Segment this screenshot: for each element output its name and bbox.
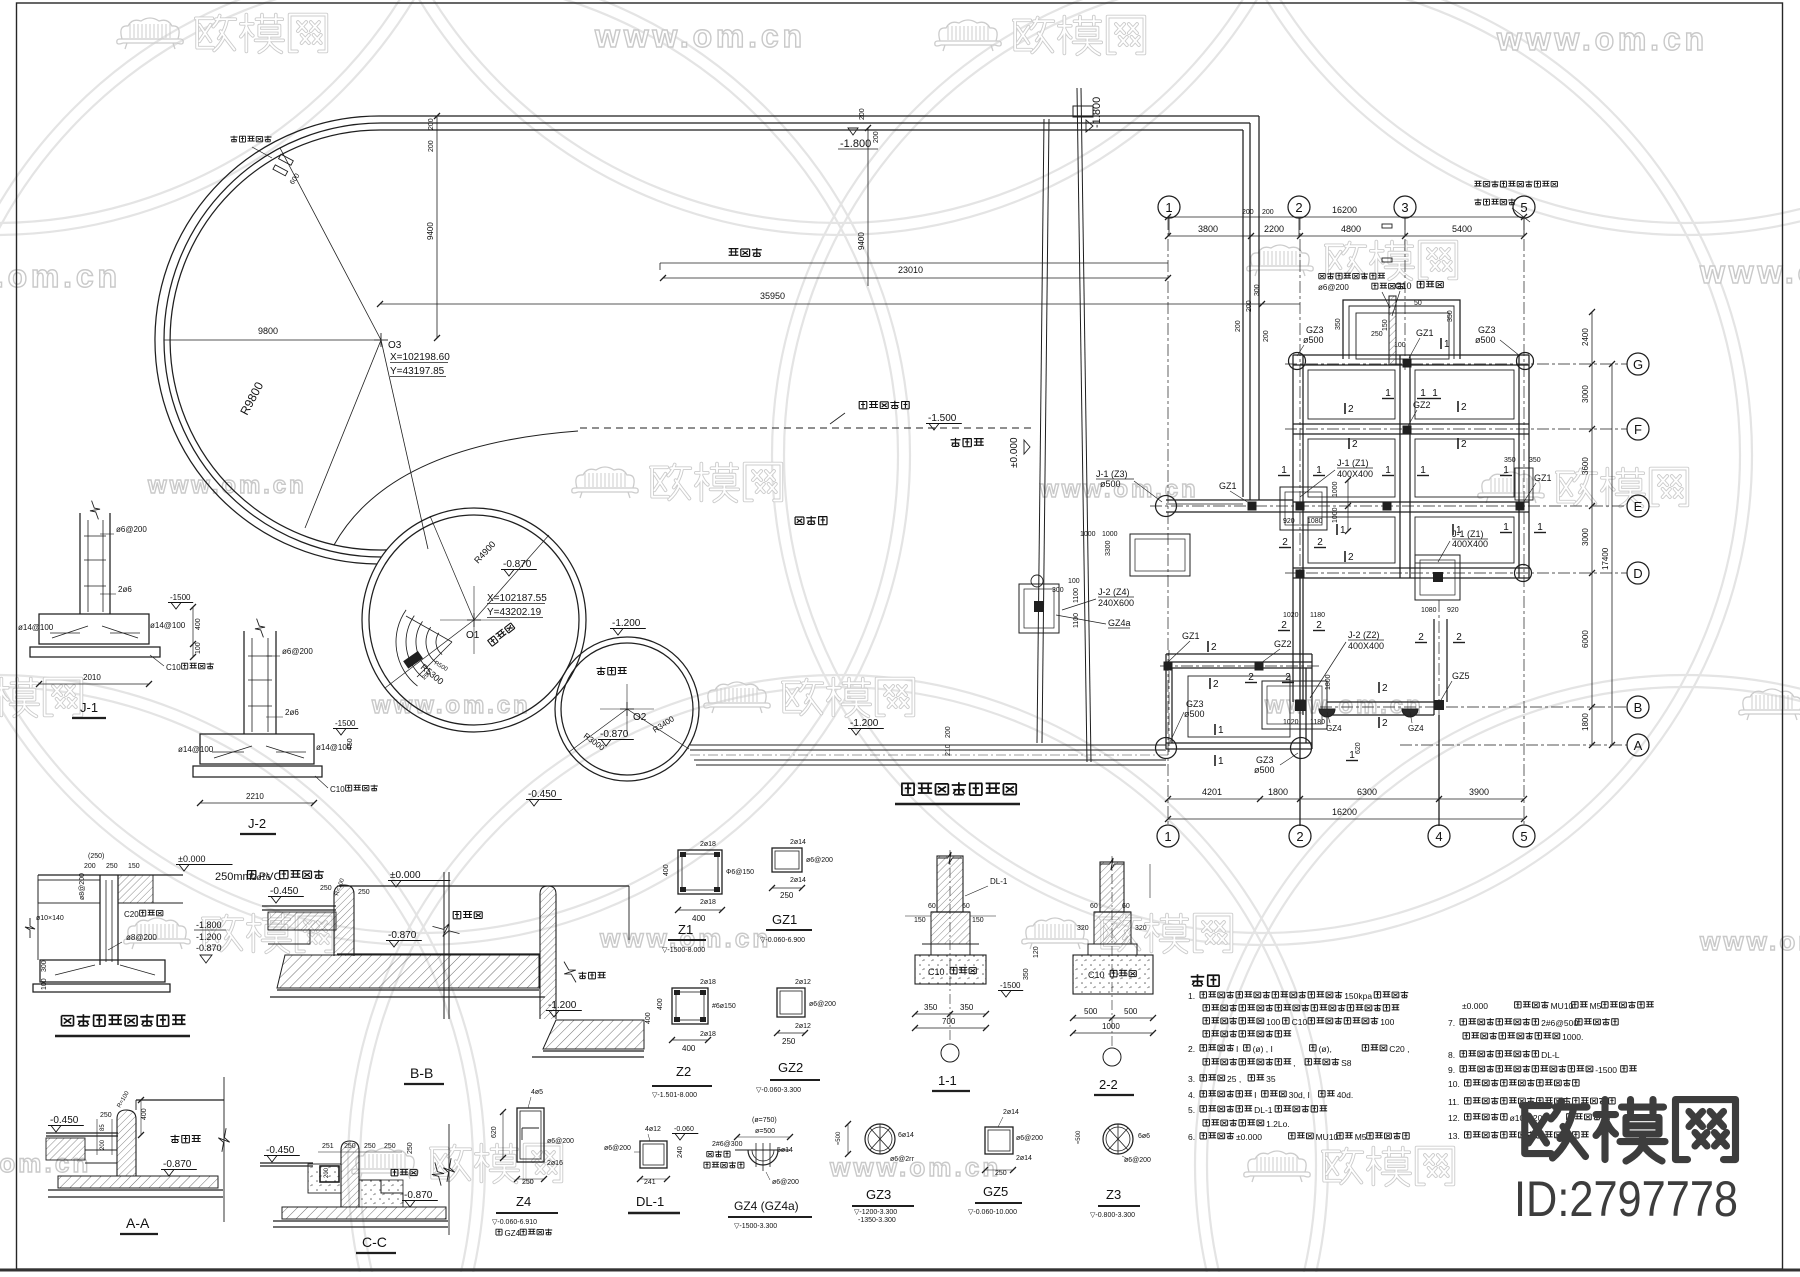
svg-text:Y=43197.85: Y=43197.85 [390, 366, 445, 377]
svg-text:-1.800: -1.800 [840, 138, 871, 150]
svg-text:350: 350 [1023, 968, 1030, 980]
svg-text:920: 920 [1447, 607, 1459, 614]
svg-text:12.: 12. [1448, 1113, 1460, 1123]
svg-text:Y=43202.19: Y=43202.19 [487, 607, 542, 618]
detail J-1: wall column [79, 513, 81, 614]
svg-text:A: A [1634, 738, 1643, 753]
reinforcement footing [40, 960, 165, 982]
svg-text:GZ1: GZ1 [1534, 473, 1552, 483]
water slide support line (diagonal) [1077, 88, 1087, 762]
svg-text:1800: 1800 [1268, 787, 1288, 797]
svg-text:250: 250 [782, 1037, 796, 1046]
detail 2-2 footing [1100, 862, 1124, 912]
svg-text:2: 2 [1317, 537, 1323, 548]
ladder label top-left [230, 136, 237, 143]
svg-text:2ø14: 2ø14 [790, 877, 806, 884]
svg-text:www.om.cn: www.om.cn [1699, 254, 1800, 290]
svg-text:▽-0.060-6.910: ▽-0.060-6.910 [492, 1219, 537, 1226]
svg-text:C10: C10 [330, 785, 345, 794]
svg-text:1: 1 [1281, 465, 1287, 476]
svg-text:2ø18: 2ø18 [700, 1031, 716, 1038]
svg-text:GZ3: GZ3 [1478, 325, 1496, 335]
svg-text:1: 1 [1537, 522, 1543, 533]
svg-text:35950: 35950 [760, 291, 785, 301]
svg-text:50: 50 [1414, 300, 1422, 307]
svg-text:www.om.cn: www.om.cn [829, 1152, 1001, 1182]
svg-text:ø6@200: ø6@200 [772, 1179, 799, 1186]
svg-text:GZ1: GZ1 [1219, 481, 1237, 491]
axis 1 vertical dash-dot [1167, 218, 1169, 826]
svg-text:400: 400 [657, 998, 664, 1010]
GZ4 half-round shape [748, 1150, 778, 1165]
svg-text:-0.870: -0.870 [388, 930, 417, 941]
svg-text:GZ3: GZ3 [866, 1187, 891, 1202]
svg-text:1-1: 1-1 [938, 1073, 957, 1088]
svg-text:6ø14: 6ø14 [898, 1132, 914, 1139]
svg-text:200: 200 [428, 118, 435, 130]
axis 2 vertical dash-dot [1299, 218, 1301, 826]
svg-text:3600: 3600 [1581, 457, 1590, 475]
J-2(Z2) footing [1262, 681, 1327, 729]
svg-text:J-1 (Z3): J-1 (Z3) [1096, 469, 1128, 479]
svg-text:3000: 3000 [1581, 528, 1590, 546]
ladder rungs [273, 154, 293, 176]
svg-text:S8: S8 [1341, 1058, 1352, 1068]
svg-text:1: 1 [1420, 388, 1426, 399]
svg-text:2: 2 [1211, 642, 1217, 653]
svg-text:5.: 5. [1188, 1105, 1195, 1115]
axis G horizontal dash-dot [1285, 363, 1627, 365]
O1 radius lines [474, 535, 549, 620]
svg-text:17400: 17400 [1601, 547, 1610, 570]
A-A top line [136, 1099, 224, 1101]
svg-text:1: 1 [1503, 522, 1509, 533]
svg-text:ø6@200: ø6@200 [1124, 1157, 1151, 1164]
svg-text:B: B [1634, 700, 1643, 715]
detail Z4 column [517, 1108, 544, 1162]
detail GZ3 column circle [865, 1124, 895, 1154]
svg-text:J-2 (Z2): J-2 (Z2) [1348, 630, 1380, 640]
C-C break [448, 1124, 450, 1235]
axis 5 vertical dash-dot [1523, 218, 1525, 826]
svg-text:G: G [1633, 357, 1643, 372]
svg-text:1: 1 [1218, 756, 1224, 767]
svg-text:1000: 1000 [1102, 531, 1118, 538]
svg-text:350: 350 [924, 1003, 938, 1012]
svg-text:1000: 1000 [1332, 507, 1339, 523]
svg-text:200: 200 [100, 1139, 106, 1150]
svg-text:C10: C10 [928, 967, 945, 977]
svg-text:4ø5: 4ø5 [531, 1089, 543, 1096]
svg-text:ø10×140: ø10×140 [36, 915, 64, 922]
svg-text:GZ5: GZ5 [1452, 671, 1470, 681]
svg-text:250: 250 [1371, 331, 1383, 338]
pool wall E-arm horizontals [1166, 499, 1293, 501]
top dimension row [1168, 235, 1524, 237]
svg-text:www.om.cn: www.om.cn [147, 472, 307, 499]
svg-text:±0.000: ±0.000 [1462, 1001, 1488, 1011]
svg-text:DL-L: DL-L [1541, 1050, 1560, 1060]
svg-text:16200: 16200 [1332, 807, 1357, 817]
svg-text:ø6@200: ø6@200 [604, 1145, 631, 1152]
svg-text:1100: 1100 [1073, 588, 1080, 603]
svg-text:2-2: 2-2 [1099, 1077, 1118, 1092]
note line left y1012 [1203, 1005, 1210, 1011]
right vertical dim lines [1591, 312, 1593, 745]
dim line 23010 [663, 277, 1168, 279]
svg-text:250: 250 [995, 1170, 1007, 1177]
svg-text:6.: 6. [1188, 1132, 1195, 1142]
svg-text:300: 300 [1254, 284, 1261, 296]
svg-text:150: 150 [128, 863, 140, 870]
svg-text:400: 400 [682, 1044, 696, 1053]
svg-text:350: 350 [1335, 318, 1342, 330]
svg-text:25 ,: 25 , [1227, 1074, 1241, 1084]
svg-text:ø6@200: ø6@200 [1016, 1135, 1043, 1142]
svg-text:ID:2797778: ID:2797778 [1514, 1171, 1738, 1227]
svg-text:O1: O1 [466, 630, 480, 641]
notes heading [1191, 974, 1205, 986]
svg-text:-1.500: -1.500 [928, 413, 957, 424]
svg-text:±0.000: ±0.000 [390, 870, 421, 881]
svg-text:1: 1 [1432, 388, 1438, 399]
svg-text:ø6@200: ø6@200 [282, 647, 313, 656]
svg-text:2210: 2210 [246, 792, 264, 801]
J-1(Z1) footing at 2xE [1280, 487, 1327, 530]
svg-text:9400: 9400 [857, 232, 866, 250]
dim line 35950 [380, 303, 1300, 305]
pump room inner tank [1188, 676, 1290, 737]
svg-text:4.: 4. [1188, 1090, 1195, 1100]
svg-text:C10: C10 [166, 663, 181, 672]
svg-text:Z3: Z3 [1106, 1187, 1121, 1202]
svg-text:1: 1 [1165, 200, 1172, 215]
detail 1-1 footing [937, 856, 963, 912]
svg-text:GZ5: GZ5 [983, 1184, 1008, 1199]
svg-text:Ф6@150: Ф6@150 [726, 869, 754, 876]
svg-text:500: 500 [1124, 1007, 1138, 1016]
svg-text:ø6@200: ø6@200 [809, 1001, 836, 1008]
note line left y1066 [1203, 1059, 1210, 1065]
svg-text:(ø),: (ø), [1319, 1044, 1332, 1054]
note line right y1040 [1463, 1033, 1470, 1039]
wall ladder rungs right [1382, 224, 1392, 228]
shore boundary curve [334, 431, 578, 545]
svg-text:60: 60 [1090, 903, 1098, 910]
svg-text:▽-1.501-8.000: ▽-1.501-8.000 [652, 1092, 697, 1099]
svg-text:www.om.cn: www.om.cn [1496, 21, 1708, 57]
svg-text:11.: 11. [1448, 1097, 1459, 1107]
svg-text:-1350-3.300: -1350-3.300 [858, 1217, 896, 1224]
svg-text:350: 350 [960, 1003, 974, 1012]
svg-text:-0.870: -0.870 [503, 559, 532, 570]
pump room walls [1166, 653, 1312, 655]
level -1.800 top [848, 128, 858, 135]
svg-text:200: 200 [859, 108, 866, 120]
svg-text:7.: 7. [1448, 1018, 1455, 1028]
svg-text:150: 150 [972, 917, 984, 924]
svg-text:250: 250 [780, 891, 794, 900]
massage pool circle O2 (double wall) [555, 637, 699, 781]
svg-text:ø14@100: ø14@100 [178, 745, 214, 754]
svg-text:ø6@200: ø6@200 [547, 1138, 574, 1145]
svg-text:400: 400 [645, 1012, 652, 1024]
svg-text:1: 1 [1385, 388, 1391, 399]
svg-text:D: D [1633, 566, 1642, 581]
svg-text:60: 60 [962, 903, 970, 910]
GZ4 semicircle 2 [1402, 709, 1418, 717]
svg-text:www.om.cn: www.om.cn [1699, 926, 1800, 956]
svg-text:Z1: Z1 [678, 922, 693, 937]
svg-text:2: 2 [1456, 632, 1462, 643]
svg-text:2: 2 [1348, 552, 1354, 563]
svg-text:2: 2 [1352, 439, 1358, 450]
svg-text:1180: 1180 [1310, 612, 1325, 619]
svg-text:2.: 2. [1188, 1044, 1195, 1054]
svg-text:3900: 3900 [1469, 787, 1489, 797]
svg-text:-1.200: -1.200 [196, 932, 222, 942]
svg-text:150: 150 [914, 917, 926, 924]
svg-text:300: 300 [1052, 587, 1064, 594]
svg-text:C-C: C-C [362, 1234, 387, 1250]
svg-text:400X400: 400X400 [1452, 539, 1488, 549]
svg-text:2: 2 [1282, 537, 1288, 548]
svg-text:250: 250 [364, 1143, 376, 1150]
svg-text:2ø18: 2ø18 [700, 899, 716, 906]
big corner circles (GZ3 o500) [1289, 353, 1306, 370]
svg-text:200: 200 [1235, 320, 1242, 332]
J-2(Z4) footing on pool wall [1019, 584, 1059, 633]
svg-text:16200: 16200 [1332, 205, 1357, 215]
svg-text:250: 250 [106, 863, 118, 870]
svg-text:ø14@100: ø14@100 [150, 621, 186, 630]
svg-text:2: 2 [1281, 620, 1287, 631]
svg-text:100: 100 [1266, 1017, 1280, 1027]
interior dividing wall (vertical) [1037, 119, 1044, 743]
axis E horizontal dash-dot [1150, 505, 1627, 507]
svg-text:9400: 9400 [426, 222, 435, 240]
svg-text:-0.450: -0.450 [266, 1145, 295, 1156]
svg-text:GZ3: GZ3 [1306, 325, 1324, 335]
label GZ5 + column [1434, 700, 1444, 710]
svg-text:2: 2 [1461, 402, 1467, 413]
pool radius lines from O3 [280, 148, 381, 340]
svg-text:200: 200 [84, 863, 96, 870]
svg-text:620: 620 [1355, 742, 1362, 754]
C-C curb [341, 1141, 359, 1207]
channel from massage pool to pump room [690, 744, 1166, 746]
svg-text:Z4: Z4 [516, 1194, 531, 1209]
svg-text:1800: 1800 [1581, 713, 1590, 731]
pool right edge wall lines [1258, 116, 1260, 500]
svg-text:320: 320 [1077, 925, 1089, 932]
svg-text:240X600: 240X600 [1098, 598, 1134, 608]
plan title (foundation layout) [901, 783, 914, 795]
axis F horizontal dash-dot [1285, 428, 1627, 430]
svg-text:2: 2 [1248, 672, 1254, 683]
svg-text:(250): (250) [88, 853, 104, 860]
svg-text:60: 60 [928, 903, 936, 910]
label rebar mesh note [1319, 273, 1325, 278]
ladder note right (factory) [1474, 181, 1481, 186]
watermark big logo OMW [1523, 1100, 1736, 1162]
label play pool (rotated) [487, 623, 515, 647]
svg-text:MU10: MU10 [1551, 1001, 1574, 1011]
pool main circular wall R9800 (triple arc) [155, 116, 381, 564]
svg-text:5400: 5400 [1452, 224, 1472, 234]
svg-text:200: 200 [1263, 330, 1270, 342]
svg-text:GZ4: GZ4 [1408, 724, 1424, 733]
svg-text:J-1: J-1 [80, 700, 98, 715]
svg-text:2: 2 [1296, 829, 1303, 844]
svg-text:1: 1 [1340, 525, 1346, 536]
svg-text:100: 100 [1380, 1017, 1394, 1027]
svg-text:▽-0.060-10.000: ▽-0.060-10.000 [968, 1209, 1017, 1216]
B-B right pool label [578, 972, 586, 979]
svg-text:240: 240 [677, 1146, 684, 1158]
J-2 footing [200, 734, 314, 764]
svg-text:(ø) , I: (ø) , I [1253, 1044, 1273, 1054]
svg-text:1180: 1180 [1310, 719, 1325, 726]
svg-text:ø6@200: ø6@200 [1318, 283, 1349, 292]
svg-text:1800: 1800 [1325, 674, 1332, 690]
svg-text:X=102198.60: X=102198.60 [390, 352, 450, 363]
svg-text:www.om.cn: www.om.cn [371, 692, 531, 719]
axis 3 vertical dash-dot [1404, 218, 1406, 370]
red warning dashed line [580, 427, 1035, 429]
svg-text:B-B: B-B [410, 1065, 433, 1081]
svg-text:9800: 9800 [258, 326, 278, 336]
svg-text:2400: 2400 [1581, 328, 1590, 346]
svg-text:1: 1 [1420, 465, 1426, 476]
svg-text:350: 350 [1447, 310, 1454, 322]
svg-text:≈500: ≈500 [1076, 1130, 1082, 1144]
svg-text:I: I [1236, 1044, 1238, 1054]
C-C pool label [391, 1169, 398, 1176]
svg-text:1020: 1020 [1283, 719, 1299, 726]
J-1 footing [39, 614, 149, 644]
svg-text:ø500: ø500 [1303, 335, 1324, 345]
svg-text:,: , [1293, 1058, 1295, 1068]
svg-text:C10: C10 [1088, 970, 1105, 980]
svg-text:F: F [1634, 422, 1642, 437]
svg-text:2: 2 [1213, 679, 1219, 690]
svg-text:±0.000: ±0.000 [1236, 1132, 1262, 1142]
svg-text:4: 4 [1435, 829, 1442, 844]
svg-text:ø6@2гг: ø6@2гг [890, 1156, 915, 1163]
svg-text:ø500: ø500 [1100, 479, 1121, 489]
section marks |1 |2 in rooms [1440, 338, 1442, 349]
svg-text:100: 100 [41, 978, 48, 990]
svg-text:200: 200 [1246, 300, 1253, 312]
svg-text:Z2: Z2 [676, 1064, 691, 1079]
svg-text:251: 251 [322, 1143, 334, 1150]
B-B floor [337, 953, 540, 955]
C-C left concrete block [308, 1164, 341, 1193]
svg-text:I: I [1254, 1090, 1256, 1100]
svg-text:250mm: 250mm [215, 871, 252, 883]
B-B left curb wall [334, 885, 354, 956]
svg-text:250: 250 [522, 1179, 534, 1186]
svg-text:-1.800: -1.800 [196, 920, 222, 930]
svg-text:2ø18: 2ø18 [700, 841, 716, 848]
svg-text:6ø6: 6ø6 [1138, 1133, 1150, 1140]
svg-text:9.: 9. [1448, 1065, 1455, 1075]
svg-text:13.: 13. [1448, 1131, 1460, 1141]
B-B centre break pipe [443, 872, 445, 1019]
detail Z2 column [672, 988, 708, 1024]
A-A pool label [171, 1135, 180, 1143]
svg-text:▽-0.060-6.900: ▽-0.060-6.900 [760, 937, 805, 944]
detail J-2: wall column [243, 631, 245, 734]
svg-text:J-2 (Z4): J-2 (Z4) [1098, 587, 1130, 597]
svg-text:ø8@200: ø8@200 [79, 873, 86, 900]
svg-text:GZ2: GZ2 [1413, 400, 1431, 410]
svg-text:2: 2 [1382, 718, 1388, 729]
axis bubbles top [1158, 196, 1180, 218]
svg-text:2: 2 [1348, 404, 1354, 415]
svg-text:#6ø150: #6ø150 [712, 1003, 736, 1010]
svg-text:-0.450: -0.450 [270, 886, 299, 897]
reinforcement title [62, 1016, 74, 1026]
svg-text:2#6@500: 2#6@500 [1541, 1018, 1578, 1028]
svg-text:120: 120 [1033, 946, 1040, 958]
svg-text:1.: 1. [1188, 991, 1195, 1001]
svg-text:250: 250 [407, 1142, 414, 1154]
svg-text:2ø16: 2ø16 [547, 1160, 563, 1167]
svg-text:400: 400 [692, 914, 706, 923]
svg-text:≈500: ≈500 [836, 1131, 842, 1145]
svg-text:2: 2 [1316, 620, 1322, 631]
svg-text:www.om.cn: www.om.cn [0, 258, 121, 294]
svg-text:400: 400 [195, 618, 202, 630]
svg-text:-1500: -1500 [1000, 981, 1021, 990]
svg-text:320: 320 [1135, 925, 1147, 932]
svg-text:-0.450: -0.450 [50, 1115, 79, 1126]
svg-text:200: 200 [428, 140, 435, 152]
axis 4 vertical dash-dot [1438, 600, 1440, 826]
A-A break line [223, 1077, 225, 1222]
svg-text:ø500: ø500 [1254, 765, 1275, 775]
axis A horizontal dash-dot [1400, 744, 1627, 746]
svg-text:GZ3: GZ3 [1186, 699, 1204, 709]
svg-text:4800: 4800 [1341, 224, 1361, 234]
svg-text:85: 85 [100, 1124, 106, 1131]
svg-text:ø8@200: ø8@200 [126, 933, 157, 942]
svg-text:2ø12: 2ø12 [795, 1023, 811, 1030]
note line left y1025 [1203, 1018, 1210, 1024]
svg-text:▽-1500-8.000: ▽-1500-8.000 [662, 947, 705, 954]
svg-text:10.: 10. [1448, 1079, 1460, 1089]
svg-text:-0.450: -0.450 [528, 789, 557, 800]
svg-text:8.: 8. [1448, 1050, 1455, 1060]
svg-text:ø500: ø500 [1184, 709, 1205, 719]
svg-text:1: 1 [1218, 725, 1224, 736]
svg-text:ø14@100: ø14@100 [18, 623, 54, 632]
svg-text:3300: 3300 [1105, 540, 1112, 556]
svg-text:ø6@200: ø6@200 [116, 525, 147, 534]
svg-text:1000: 1000 [1332, 481, 1339, 497]
svg-text:2ø14: 2ø14 [1003, 1109, 1019, 1116]
svg-text:100: 100 [1394, 342, 1406, 349]
svg-text:2#6@300: 2#6@300 [712, 1141, 743, 1148]
svg-text:-1.200: -1.200 [612, 618, 641, 629]
svg-text:O3: O3 [388, 340, 402, 351]
svg-text:J-2: J-2 [248, 816, 266, 831]
label shallow water zone [951, 438, 961, 447]
svg-text:1: 1 [1456, 525, 1462, 536]
svg-text:GZ3: GZ3 [1256, 755, 1274, 765]
